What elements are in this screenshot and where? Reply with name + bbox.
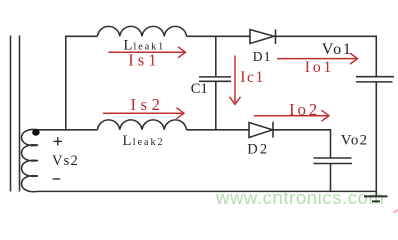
svg-text:C1: C1	[191, 81, 208, 97]
svg-text:Is1: Is1	[128, 51, 160, 70]
svg-text:www.cntronics.com: www.cntronics.com	[215, 187, 385, 208]
svg-text:L: L	[123, 133, 132, 149]
svg-text:D1: D1	[253, 49, 272, 64]
svg-text:leak2: leak2	[133, 137, 165, 148]
svg-text:Ic1: Ic1	[240, 69, 265, 86]
svg-text:Vo1: Vo1	[322, 41, 353, 58]
svg-text:Is2: Is2	[131, 95, 165, 114]
svg-text:Vs2: Vs2	[52, 153, 79, 169]
svg-text:D2: D2	[247, 141, 269, 157]
svg-text:Io1: Io1	[305, 59, 334, 76]
svg-text:Vo2: Vo2	[341, 133, 369, 149]
svg-text:Io2: Io2	[289, 100, 320, 119]
